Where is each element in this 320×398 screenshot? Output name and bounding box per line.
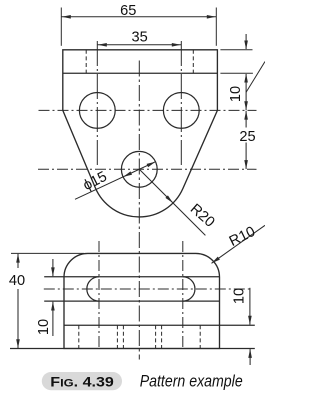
hole H2 upper right	[163, 93, 199, 129]
centre line front slot right vertical	[182, 241, 184, 349]
dimension R10 leader	[212, 225, 266, 263]
dimension R20 leader	[139, 169, 205, 235]
centre line main vertical (runs through both views)	[138, 61, 140, 360]
front view bottom edge and extensions	[10, 348, 255, 350]
svg-text:FIG. 4.39: FIG. 4.39	[50, 375, 114, 391]
leader from 10 label	[246, 62, 265, 93]
slot centre line horizontal	[44, 288, 250, 290]
dimension 35 line	[97, 44, 181, 46]
dimension 25 line	[244, 111, 248, 170]
dimension 10 band right arrows	[248, 288, 252, 365]
caption pill	[42, 372, 122, 390]
svg-text:10: 10	[228, 86, 244, 102]
front view band top line	[64, 324, 255, 326]
svg-text:10: 10	[232, 288, 248, 304]
dimension 40 line	[16, 254, 20, 349]
svg-text:10: 10	[36, 319, 52, 335]
centre line front slot left vertical	[98, 241, 100, 349]
hole H3 lower centre	[121, 151, 157, 187]
centre line hole H2 vertical	[180, 41, 182, 166]
svg-text:65: 65	[120, 3, 136, 19]
svg-text:40: 40	[9, 273, 25, 289]
hidden lines in bottom band	[79, 325, 200, 348]
extension lines right of top view	[220, 50, 253, 74]
hidden line left of band	[85, 50, 87, 74]
svg-text:ϕ15: ϕ15	[81, 169, 110, 194]
slot left end arc	[87, 277, 99, 301]
svg-text:R20: R20	[187, 201, 218, 231]
front view top extension line	[11, 252, 84, 254]
slot right end arc	[183, 277, 195, 301]
top view outline	[63, 50, 218, 217]
dimension 65 lines	[61, 8, 216, 46]
dimension 10 top view arrows	[244, 34, 248, 110]
hole H1 upper left	[79, 93, 115, 129]
dimension 10 slot height arrows	[51, 259, 55, 336]
hidden line right of band	[192, 50, 194, 74]
centre line upper holes horizontal	[39, 109, 257, 111]
svg-text:Pattern example: Pattern example	[140, 372, 243, 391]
front view outline	[64, 253, 220, 348]
centre line lower hole horizontal	[38, 168, 257, 170]
svg-text:25: 25	[239, 129, 255, 145]
front view slot bottom line	[44, 300, 219, 302]
dimension phi15 leader	[75, 162, 156, 200]
svg-text:R10: R10	[227, 224, 258, 250]
top view band edge line	[63, 72, 218, 74]
centre line hole H1 vertical	[96, 41, 98, 166]
dimension 65 arrowheads	[62, 15, 216, 19]
svg-text:35: 35	[131, 29, 147, 45]
dimension 35 arrowheads	[98, 43, 181, 47]
front view slot top line	[44, 276, 219, 278]
